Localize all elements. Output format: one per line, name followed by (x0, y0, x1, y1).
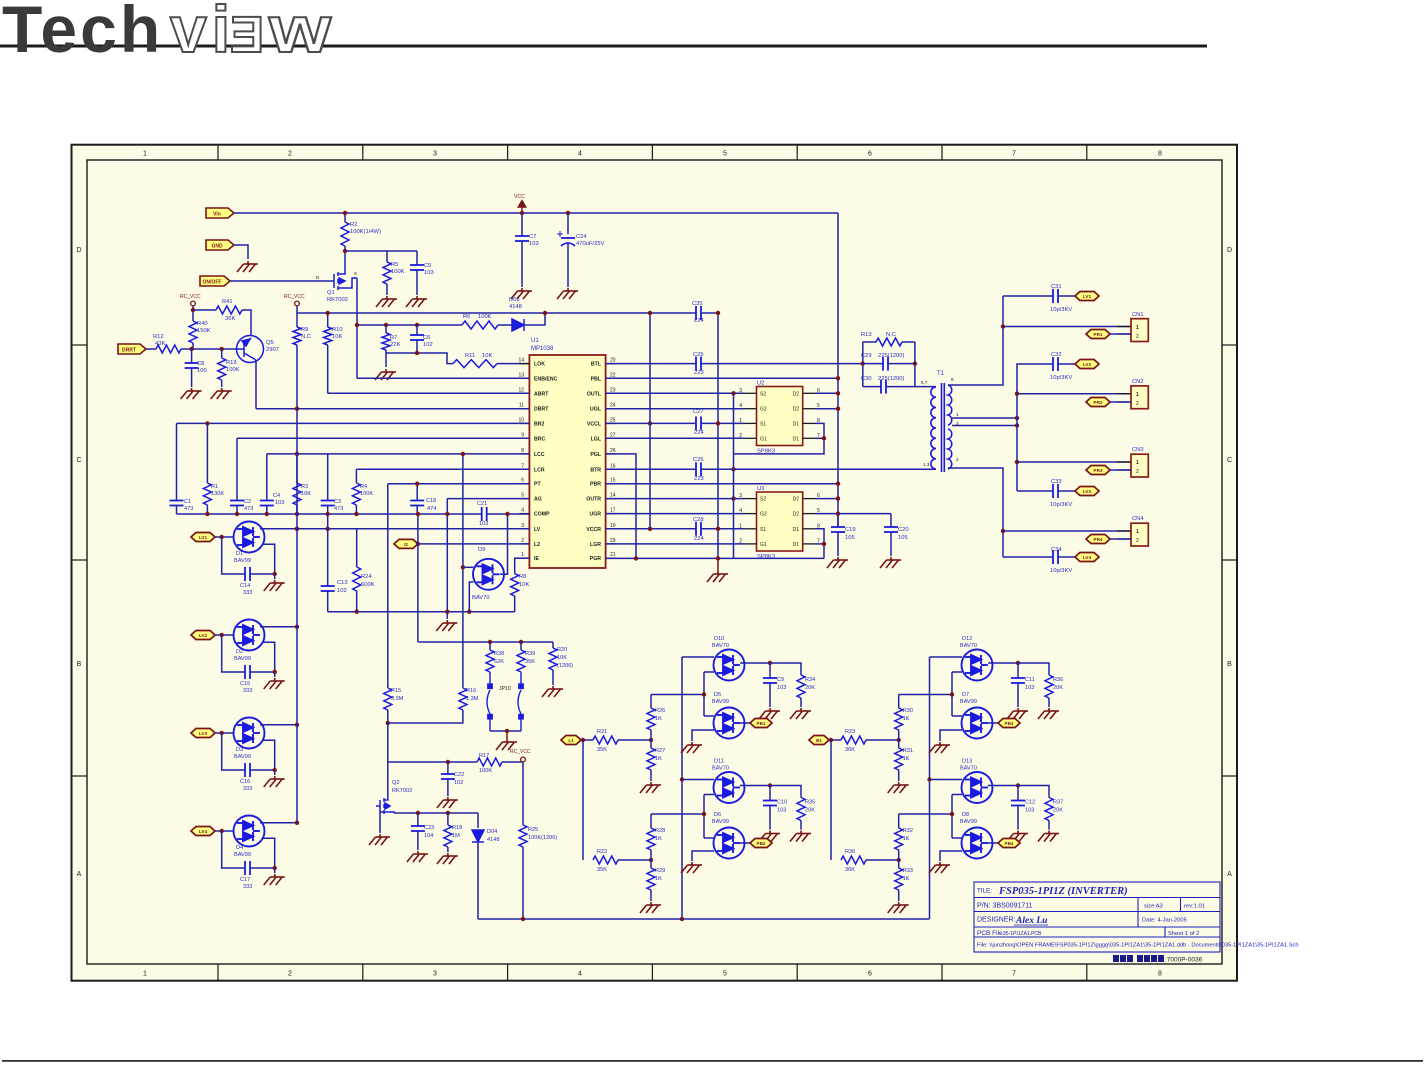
wire U2 pin5 to bus (815, 408, 838, 410)
capacitor C35 (696, 306, 701, 320)
port LV2 (1075, 360, 1099, 369)
ground (759, 831, 780, 842)
svg-text:103: 103 (529, 241, 539, 247)
junction (768, 661, 772, 665)
op-amp U1 MP1038 (518, 338, 615, 568)
wire C19 ground (837, 532, 839, 556)
junction (649, 858, 653, 862)
svg-text:G1: G1 (760, 542, 767, 548)
junction (415, 323, 419, 327)
wire R2 bottom node (344, 246, 346, 266)
svg-text:1K: 1K (655, 756, 662, 762)
svg-text:C: C (1227, 457, 1232, 464)
svg-text:CN3: CN3 (1132, 447, 1144, 453)
capacitor C18 (410, 501, 424, 506)
wire T1 sec pin8 (948, 296, 1003, 385)
svg-text:130K: 130K (211, 491, 224, 497)
wire bus to third diode (682, 779, 714, 781)
svg-text:223: 223 (694, 476, 704, 482)
svg-text:3.3M: 3.3M (391, 696, 404, 702)
port LV3 (191, 729, 215, 738)
wire R7 ground (385, 353, 387, 367)
svg-text:7: 7 (1012, 971, 1016, 978)
wire RC_VCC left (192, 306, 194, 321)
wire VCCR row left (606, 528, 696, 530)
wire CN3 pin1 (1017, 461, 1131, 463)
junction (384, 323, 388, 327)
port LV1 (191, 533, 215, 542)
capacitor C9 (763, 678, 777, 683)
svg-text:LV2: LV2 (199, 633, 208, 638)
wire PR2 to CN2 pin2 (1110, 401, 1131, 403)
connector CN3 (1131, 447, 1148, 477)
resistor R35 (797, 798, 805, 821)
svg-text:1K: 1K (903, 716, 910, 722)
port PR3 (1086, 466, 1110, 475)
wire divider vert lower (703, 795, 705, 839)
resistor R20 (549, 648, 557, 670)
wire D4 ground stub (274, 868, 276, 873)
svg-text:C24: C24 (576, 234, 587, 240)
svg-text:LV2: LV2 (1083, 362, 1092, 367)
svg-text:G1: G1 (760, 436, 767, 442)
svg-text:R40: R40 (197, 321, 208, 327)
svg-text:S2: S2 (760, 497, 766, 503)
svg-text:R30: R30 (903, 708, 913, 714)
svg-text:6: 6 (868, 971, 872, 978)
svg-text:S1: S1 (760, 527, 766, 533)
connector CN1 (1131, 312, 1148, 342)
ground (542, 686, 563, 697)
ground (181, 388, 202, 399)
svg-text:JP10: JP10 (499, 686, 511, 692)
svg-text:473: 473 (244, 506, 253, 512)
resistor R33 (895, 868, 903, 890)
junction (768, 783, 772, 787)
top rule line (0, 45, 1207, 48)
resistor R4 (352, 483, 360, 505)
wire vertical x733 (733, 393, 735, 558)
svg-text:2: 2 (1136, 469, 1139, 475)
svg-text:2: 2 (739, 433, 742, 439)
wire LCR row (356, 468, 529, 470)
wire BTR row right (701, 468, 934, 470)
junction (273, 768, 277, 772)
wire R13 top right (902, 341, 915, 343)
svg-text:w: w (268, 0, 332, 66)
power flag RC_VCC bottom (521, 757, 526, 762)
wire R6/D65 row (357, 324, 462, 326)
svg-text:36K: 36K (845, 747, 855, 753)
connector CN4 (1131, 516, 1148, 546)
capacitor C7 (515, 236, 529, 241)
svg-text:150K: 150K (197, 328, 211, 334)
wire C20 ground (890, 532, 892, 556)
resistor R22 (593, 856, 618, 864)
wire rail after C35 (701, 312, 718, 314)
svg-text:DRRT: DRRT (122, 347, 136, 353)
port LV3 (1075, 487, 1099, 496)
svg-text:A: A (1227, 871, 1232, 878)
ground (888, 782, 909, 793)
ground (496, 739, 517, 750)
ground (681, 742, 702, 753)
wire BTL row right (701, 363, 863, 365)
ground (557, 288, 578, 299)
wire BAV99 to port (988, 722, 998, 724)
svg-text:LV1: LV1 (1083, 294, 1092, 299)
svg-text:rev:1.01: rev:1.01 (1184, 904, 1205, 910)
svg-text:Ǝ: Ǝ (230, 6, 264, 63)
wire R3 bottom (296, 505, 298, 514)
svg-text:C23: C23 (424, 825, 434, 831)
junction (265, 512, 269, 516)
svg-text:D3: D3 (236, 747, 243, 753)
svg-text:12: 12 (518, 387, 524, 393)
junction (295, 723, 299, 727)
svg-text:C33: C33 (1051, 479, 1062, 485)
wire D lower BL (704, 794, 714, 796)
wire res ground (800, 698, 802, 707)
ground (237, 261, 258, 272)
svg-text:VCC: VCC (514, 194, 525, 200)
junction (295, 527, 299, 531)
svg-text:R34: R34 (805, 677, 815, 683)
svg-text:C8: C8 (197, 361, 204, 367)
wire C17 right (250, 838, 275, 868)
wire bus to top diode (930, 656, 963, 658)
svg-text:C10: C10 (777, 800, 787, 806)
wire D1 ground stub (274, 574, 276, 579)
svg-text:R25: R25 (528, 827, 538, 833)
junction (913, 361, 917, 365)
resistor R23 (841, 736, 866, 744)
wire RC_VCC to R25 (522, 762, 524, 825)
svg-text:ABRT: ABRT (534, 391, 549, 397)
diode D8 BAV99 (962, 828, 993, 859)
svg-text:3: 3 (433, 151, 437, 158)
svg-text:7: 7 (1012, 151, 1016, 158)
wire D9 cathode up (500, 514, 508, 574)
svg-text:D1: D1 (793, 527, 800, 533)
svg-text:D2: D2 (793, 407, 800, 413)
svg-text:2: 2 (1136, 334, 1139, 340)
svg-text:474: 474 (427, 506, 436, 512)
svg-text:C35: C35 (692, 301, 703, 307)
wire cap ground (769, 683, 771, 707)
svg-text:S2: S2 (760, 391, 766, 397)
resistor R12 (156, 345, 181, 353)
power flag RC_VCC right (295, 301, 300, 306)
wire R20 ground (552, 670, 554, 685)
wire CN1 pin stubs (1117, 327, 1131, 335)
wire R6 to D65 (498, 324, 512, 326)
svg-text:C16: C16 (240, 779, 250, 785)
svg-text:20K: 20K (1053, 685, 1063, 691)
svg-text:R7: R7 (390, 335, 397, 341)
wire C17 left (222, 831, 245, 868)
svg-text:(1206): (1206) (557, 663, 573, 669)
svg-text:D1: D1 (793, 436, 800, 442)
wire cap stub (1017, 786, 1019, 801)
diode D10 BAV70 (714, 650, 745, 681)
ground (790, 831, 811, 842)
wire DBRT row (256, 408, 529, 410)
wire R18 stub (447, 813, 449, 825)
diode D1 BAV99 (234, 522, 265, 553)
wire block to T1 (915, 386, 936, 388)
port L1 (561, 736, 581, 745)
svg-text:D1: D1 (793, 421, 800, 427)
wire C30 row right (886, 386, 915, 388)
svg-text:LCR: LCR (534, 467, 545, 473)
wire bottom bus (478, 918, 930, 920)
svg-text:R10: R10 (332, 327, 343, 333)
svg-text:C25: C25 (693, 352, 704, 358)
junction (950, 812, 954, 816)
wire T1 primary bottom (929, 468, 936, 470)
diode D2 BAV99 (234, 620, 265, 651)
wire R15 column (387, 484, 389, 688)
capacitor C21 (482, 507, 487, 521)
wire R1 bottom (206, 505, 208, 514)
svg-text:103: 103 (1025, 808, 1034, 814)
junction (861, 361, 865, 365)
capacitor C6 (410, 335, 424, 340)
wire D upper BL (704, 671, 714, 673)
wire VCC branch vertical (649, 313, 651, 529)
svg-text:4148: 4148 (509, 304, 522, 310)
wire diode right 665 (988, 662, 1018, 664)
port PB1 (750, 719, 772, 728)
junction (519, 640, 523, 644)
svg-text:C2: C2 (244, 499, 251, 505)
wire ABRT row (328, 392, 530, 394)
wire bus x297 lower (296, 454, 298, 823)
wire LGR row (606, 543, 744, 545)
svg-text:C3: C3 (334, 499, 341, 505)
junction (716, 421, 720, 425)
wire R9 stub (296, 313, 298, 327)
svg-text:VCCL: VCCL (587, 421, 602, 427)
svg-text:3: 3 (739, 388, 742, 394)
svg-text:20K: 20K (805, 808, 815, 814)
wire PR3 to CN3 pin2 (1110, 469, 1131, 471)
svg-text:5: 5 (723, 151, 727, 158)
power flag RC_VCC left (191, 301, 196, 306)
svg-text:C5: C5 (424, 263, 431, 269)
wire R11 to pin14 (497, 363, 529, 365)
svg-text:LCC: LCC (534, 452, 545, 458)
wire D9 topleft pin (463, 566, 474, 568)
svg-text:CN2: CN2 (1132, 379, 1144, 385)
svg-text:36K: 36K (845, 867, 855, 873)
wire PT row (388, 483, 530, 485)
svg-text:333: 333 (243, 786, 252, 792)
wire U3 pin6 to bus (815, 498, 838, 500)
wire C18 column (416, 484, 418, 501)
wire to res (1018, 786, 1049, 798)
svg-text:UGR: UGR (589, 512, 601, 518)
svg-text:S: S (354, 271, 357, 276)
wire R8 top (515, 558, 530, 574)
svg-text:4: 4 (739, 508, 742, 514)
svg-text:U1: U1 (531, 338, 539, 344)
svg-text:R31: R31 (903, 748, 913, 754)
wire DRRT row (146, 348, 156, 350)
capacitor C1 (170, 501, 184, 506)
svg-text:17: 17 (610, 508, 616, 514)
wire BAV99 to port (988, 842, 998, 844)
svg-text:1K: 1K (655, 716, 662, 722)
wire R24 top (356, 529, 358, 567)
wire divider tap lower (899, 813, 952, 815)
wire D9 feed vertical (462, 454, 464, 642)
wire LV4 to diode (215, 830, 234, 832)
svg-text:D9: D9 (478, 547, 485, 553)
ground (929, 742, 950, 753)
wire C14 right (250, 544, 275, 574)
resistor R13 (876, 338, 902, 346)
wire D3 ground stub (274, 770, 276, 775)
junction (680, 777, 684, 781)
svg-text:R4: R4 (360, 484, 367, 490)
resistor R21 (593, 736, 618, 744)
wire D65 cathode (524, 313, 545, 325)
svg-text:Alex Lu: Alex Lu (1015, 916, 1047, 926)
wire GND stub (234, 245, 248, 259)
ground (436, 620, 457, 631)
wire divider top lower (898, 814, 900, 828)
wire I2 junction (417, 543, 419, 545)
svg-text:1: 1 (956, 412, 959, 417)
wire D2 top to bus (260, 626, 297, 628)
wire divider mid lower (650, 850, 652, 868)
svg-text:C22: C22 (454, 772, 464, 778)
wire R39 stub (520, 642, 522, 650)
transistor Q1 (331, 266, 357, 290)
capacitor C22 (441, 774, 455, 779)
frame row ticks (72, 345, 1238, 776)
resistor R38 (486, 650, 494, 672)
wire LV row (262, 528, 529, 530)
wire D upper BL (952, 671, 962, 673)
wire R2 top (344, 213, 346, 222)
svg-text:D13: D13 (962, 759, 972, 765)
junction (520, 211, 524, 215)
svg-text:C26: C26 (693, 457, 704, 463)
svg-text:22K: 22K (390, 342, 400, 348)
junction (648, 421, 652, 425)
svg-text:R17: R17 (479, 753, 489, 759)
svg-text:N.C: N.C (886, 332, 896, 338)
wire C13 column (327, 514, 329, 586)
wire C24 stub (567, 213, 569, 234)
wire PR4 to CN4 pin2 (1110, 538, 1131, 540)
wire D2 BL ground (692, 730, 714, 741)
wire C30 row left (863, 386, 881, 388)
svg-text:D1: D1 (793, 542, 800, 548)
wire D upper2 TL (704, 715, 714, 717)
svg-text:R32: R32 (903, 828, 913, 834)
svg-text:R5: R5 (391, 262, 398, 268)
svg-text:4: 4 (521, 508, 524, 514)
svg-text:10p/3KV: 10p/3KV (1050, 375, 1072, 381)
svg-text:100K: 100K (226, 367, 240, 373)
svg-text:R22: R22 (597, 849, 607, 855)
svg-text:I2: I2 (404, 542, 408, 547)
connector CN2 (1131, 379, 1148, 409)
capacitor C8 (185, 363, 199, 368)
svg-text:333: 333 (243, 688, 252, 694)
svg-text:D5: D5 (714, 692, 721, 698)
wire C7 stub (521, 213, 523, 236)
wire U2 wrap pin8 (734, 423, 825, 454)
junction (467, 610, 471, 614)
svg-text:C27: C27 (693, 409, 704, 415)
svg-text:BAV99: BAV99 (960, 699, 977, 705)
wire R24 bottom (356, 591, 358, 612)
junction (521, 917, 525, 921)
junction (220, 731, 224, 735)
svg-text:R16: R16 (466, 688, 476, 694)
wire U2 pin6 to bus (815, 392, 838, 394)
wire rail ground (717, 558, 719, 571)
ground (511, 288, 532, 299)
junction (836, 391, 840, 395)
ground (707, 571, 728, 582)
port B1 (809, 736, 829, 745)
capacitor C4 (260, 501, 274, 506)
wire PGR row (606, 557, 824, 559)
junction (897, 858, 901, 862)
svg-text:GND: GND (211, 243, 223, 249)
svg-text:15: 15 (610, 478, 616, 484)
svg-text:10p/3KV: 10p/3KV (1050, 568, 1072, 574)
ground (1038, 708, 1059, 719)
svg-text:BAV99: BAV99 (960, 819, 977, 825)
junction (836, 376, 840, 380)
svg-text:26: 26 (610, 448, 616, 454)
svg-text:R3: R3 (301, 484, 308, 490)
wire R5 ground (386, 284, 388, 295)
port LV2 (191, 631, 215, 640)
port LV4 (1075, 553, 1099, 562)
svg-text:PGR: PGR (590, 556, 601, 562)
svg-text:C15: C15 (240, 681, 250, 687)
resistor R6 (462, 321, 498, 329)
svg-text:R12: R12 (153, 334, 164, 340)
wire D1 top to bus (260, 528, 297, 530)
svg-text:10p/3KV: 10p/3KV (1050, 502, 1072, 508)
svg-text:100K: 100K (360, 491, 373, 497)
capacitor C10 (763, 801, 777, 806)
svg-text:BAV70: BAV70 (712, 766, 729, 772)
junction (649, 738, 653, 742)
svg-text:B1: B1 (816, 738, 822, 743)
resistor R39 (517, 650, 525, 672)
svg-text:BAV70: BAV70 (472, 595, 490, 601)
diode D5 BAV99 (714, 708, 745, 739)
svg-text:2: 2 (1136, 538, 1139, 544)
capacitor C3 (321, 501, 335, 506)
resistor R18 (444, 825, 452, 847)
wire R41 row (193, 309, 216, 311)
junction (543, 311, 547, 315)
wire divider tap upper (651, 694, 704, 696)
svg-text:473: 473 (184, 506, 193, 512)
svg-text:COMP: COMP (534, 512, 550, 518)
